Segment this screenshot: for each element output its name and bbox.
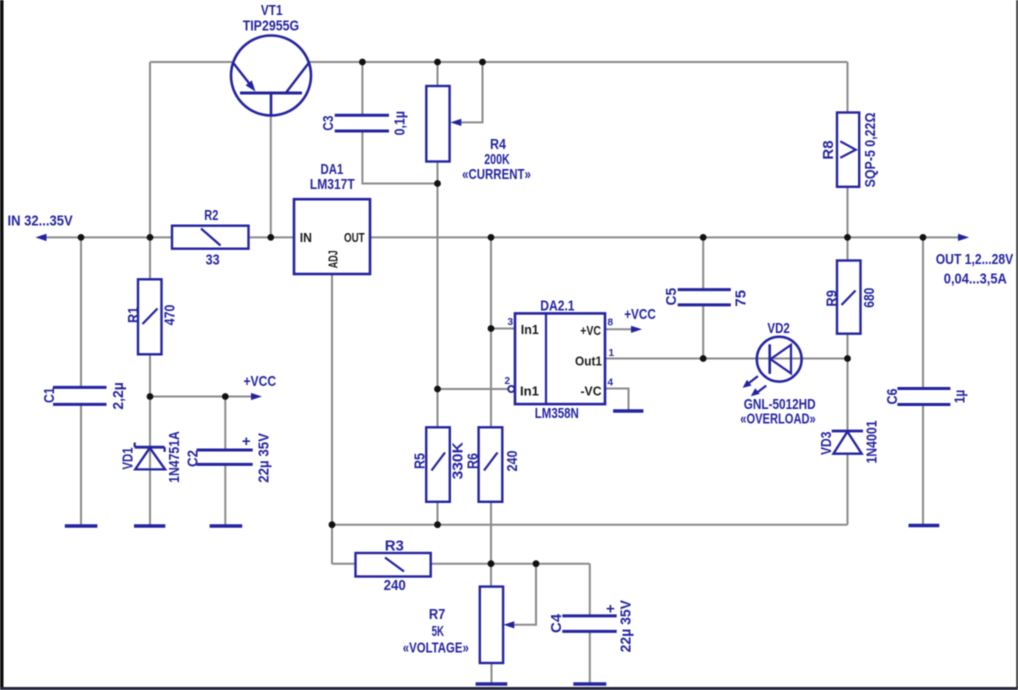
ground bar C2 [210,524,243,527]
junction VT1 base on input row [267,234,274,241]
svg-text:+VCC: +VCC [624,306,656,323]
resistor R6 [479,427,503,502]
ground bar DA2 [613,409,643,412]
svg-text:8: 8 [608,318,614,329]
svg-text:C2: C2 [185,450,202,467]
wire C4 top [589,564,591,616]
ground bar VD1 [134,524,165,527]
wire C4 bottom [589,631,591,684]
wire VD3 bottom [847,453,849,524]
svg-text:1: 1 [609,348,615,359]
svg-text:In1: In1 [520,383,539,398]
junction C5 on output rail [700,234,707,241]
junction pin3 tap [488,325,495,332]
svg-text:1µ: 1µ [952,390,969,404]
resistor R3 [356,553,431,577]
svg-text:C4: C4 [548,613,565,633]
junction C1 on input row [78,234,85,241]
svg-text:4: 4 [608,378,614,389]
wire IN row [44,236,172,238]
wire left vertical input riser [149,62,151,237]
junction R6/R7 node [488,560,495,567]
junction R9 on output rail [844,234,851,241]
wire +VC lead [605,328,633,330]
svg-text:R7: R7 [429,606,446,623]
junction C2 on +VCC row [222,393,229,400]
svg-text:0,1µ: 0,1µ [392,111,409,135]
resistor R2 [172,226,249,249]
wire R9 bottom to VD3 [847,334,849,431]
svg-text:R3: R3 [385,537,404,554]
arrow OUT output [958,234,969,241]
frame left black bar [0,0,4,687]
potentiometer R4 [426,86,461,162]
svg-text:DA2.1: DA2.1 [540,298,574,315]
wire R2 to DA1 IN [249,236,295,238]
svg-text:SQP-5 0,22Ω: SQP-5 0,22Ω [862,113,879,188]
svg-text:22µ 35V: 22µ 35V [617,600,634,652]
wire C2 top [224,397,226,451]
junction pin2 tap [434,386,441,393]
svg-text:470: 470 [162,305,179,326]
wire C2 bottom [224,465,226,527]
svg-text:R6: R6 [465,453,482,469]
IC DA1 box [294,199,370,274]
svg-text:OUT 1,2...28V: OUT 1,2...28V [936,251,1014,268]
svg-text:LM317T: LM317T [310,176,355,193]
wire main output rail [370,236,960,238]
wire C3 bottom to node [362,131,437,184]
potentiometer R7 [480,587,515,663]
svg-text:C6: C6 [884,389,901,405]
svg-text:«VOLTAGE»: «VOLTAGE» [403,639,469,656]
svg-text:-VC: -VC [581,384,603,399]
svg-text:«CURRENT»: «CURRENT» [462,166,531,183]
ground bar C6 [909,524,940,527]
arrow +VCC left [251,393,262,400]
junction C6 on output rail [920,234,927,241]
wire +VCC row [150,396,252,398]
transistor VT1 [231,36,311,116]
wire -VC to ground [605,389,629,410]
junction R1 riser on input row [147,234,154,241]
ground bar C4 [573,682,606,685]
capacitor C6 [897,389,950,405]
capacitor C1 [53,387,107,404]
wire pin2 tap [438,388,510,390]
svg-text:VT1: VT1 [261,2,283,19]
junction C3 tap on top rail [359,59,366,66]
wire bottom rail [332,524,848,526]
svg-text:2: 2 [504,376,510,387]
wire C5 bottom [702,305,704,359]
svg-text:Out1: Out1 [575,353,602,368]
wire C5 top [702,237,704,289]
wire R3 right row [431,563,590,565]
svg-text:R2: R2 [204,207,218,224]
arrow IN input [35,234,46,241]
svg-text:R9: R9 [824,290,841,307]
svg-text:C1: C1 [41,387,58,403]
ground bar C1 [65,524,98,527]
svg-text:VD1: VD1 [120,447,137,469]
wire pin3 tap [491,328,515,330]
svg-text:R5: R5 [412,453,429,469]
svg-text:75: 75 [733,290,750,307]
wire C1 top [80,237,82,387]
wire C3 top tap [361,62,363,116]
wire Out1 line [605,358,848,360]
ground bar R7 [476,682,508,685]
frame bottom line [0,687,1018,690]
svg-text:+VCC: +VCC [243,373,276,390]
IC DA2.1 box [515,313,605,404]
svg-text:22µ 35V: 22µ 35V [256,433,273,483]
junction R4 wiper on top rail [479,59,486,66]
wire to R3 left [332,563,356,565]
wire R5 bottom [437,502,439,525]
pin 2 inverting input circle [508,386,514,392]
junction R5 on bottom rail [434,521,441,528]
junction C5 on Out1 line [700,355,707,362]
svg-text:1N4751A: 1N4751A [166,431,183,483]
wire R4 wiper feed [459,62,483,122]
wire R7 top [490,564,492,587]
wire C6 top [922,237,924,388]
wire R8 bottom to R9 top [847,187,849,261]
wire R4 bottom to R5 top [437,162,439,428]
svg-text:R8: R8 [820,140,837,159]
wire ADJ down [331,274,333,564]
LED VD2 [743,337,802,396]
wire C1 bottom [80,405,82,527]
capacitor C2 [197,450,253,464]
svg-text:1N4001: 1N4001 [864,420,881,463]
wire R1 bottom through VD1 [149,354,151,526]
svg-text:+VC: +VC [580,323,601,338]
svg-text:LM358N: LM358N [535,405,579,422]
capacitor C4 [562,616,616,632]
capacitor C5 [678,290,731,305]
wire VT1 base down [270,114,272,237]
svg-text:C5: C5 [663,288,680,306]
svg-text:VD2: VD2 [767,320,789,337]
capacitor C3 [335,115,389,131]
wire C6 bottom [922,405,924,526]
wire R8 top [847,62,849,113]
svg-text:VD3: VD3 [818,432,835,455]
svg-text:IN: IN [300,230,312,245]
resistor R5 [426,427,450,502]
svg-text:2,2µ: 2,2µ [110,382,127,409]
frame right line [1016,0,1018,690]
junction node C3/R4 bottom [434,180,441,187]
diode VD3 [832,431,863,454]
svg-text:+: + [242,433,251,450]
wire top rail right segment [309,61,848,63]
svg-text:TIP2955G: TIP2955G [243,18,299,35]
resistor R9 [837,261,861,334]
svg-text:ADJ: ADJ [325,250,340,268]
junction R4 top on top rail [434,59,441,66]
svg-text:«OVERLOAD»: «OVERLOAD» [740,410,815,427]
wire R1 top [149,237,151,279]
resistor R8 [837,113,859,187]
junction R6 feed on output rail [488,234,495,241]
junction R1/VD1 +VCC node [147,393,154,400]
svg-text:IN 32...35V: IN 32...35V [8,213,73,230]
junction R9/VD3 on Out1 line [844,355,851,362]
svg-text:5K: 5K [432,623,445,640]
svg-text:0,04...3,5A: 0,04...3,5A [944,270,1007,287]
svg-text:240: 240 [384,577,406,594]
junction ADJ on bottom rail [329,521,336,528]
resistor R1 [138,279,162,354]
svg-text:3: 3 [507,317,513,328]
svg-text:240: 240 [504,451,521,472]
svg-text:680: 680 [861,288,878,308]
wire R4 top lead [437,62,439,86]
junction R7 wiper node [533,560,540,567]
wire R6 bottom [490,502,492,564]
zener diode VD1 [135,443,165,470]
wire R7 bottom [491,663,493,684]
wire R7 wiper feed [514,564,536,625]
svg-text:33: 33 [206,252,220,269]
wire rail to R6 top [490,237,492,427]
svg-text:R1: R1 [125,307,142,323]
arrow +VCC DA2 [631,326,642,333]
svg-text:+: + [606,600,615,617]
svg-text:C3: C3 [320,116,337,131]
svg-text:OUT: OUT [344,230,365,245]
svg-text:In1: In1 [521,322,539,337]
wire top rail left segment [150,61,232,63]
